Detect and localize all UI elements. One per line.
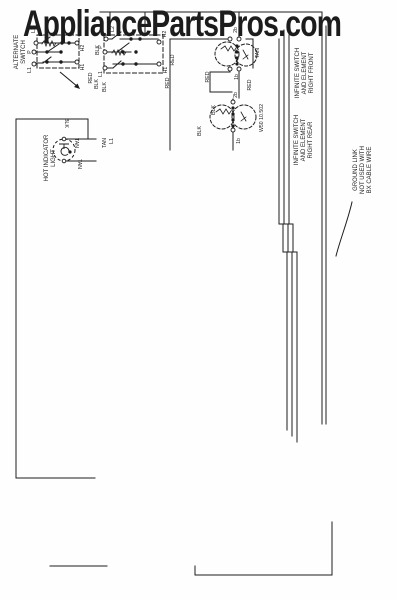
wire SW2 feeders from top border <box>110 12 145 35</box>
svg-text:L1: L1 <box>98 71 104 77</box>
svg-text:AND ELEMENT: AND ELEMENT <box>301 118 307 161</box>
element right rear switch circles <box>210 105 234 129</box>
svg-text:BLK: BLK <box>94 79 100 89</box>
wire right border pair <box>321 12 323 424</box>
svg-text:TAN: TAN <box>255 48 261 58</box>
svg-text:1b: 1b <box>234 74 240 80</box>
svg-text:BLK: BLK <box>102 82 108 92</box>
svg-text:HOT INDICATOR: HOT INDICATOR <box>44 134 50 181</box>
switch SW2 contacts <box>107 32 158 68</box>
svg-text:P: P <box>27 50 33 54</box>
svg-text:RED: RED <box>247 79 253 90</box>
wire left border <box>16 119 95 478</box>
lamp hot indicator light <box>53 139 75 161</box>
svg-text:RIGHT REAR: RIGHT REAR <box>308 121 314 159</box>
svg-text:GROUND LINK: GROUND LINK <box>353 149 359 191</box>
svg-text:BLK: BLK <box>95 45 101 55</box>
wire right rear connections <box>232 99 234 150</box>
svg-text:L1: L1 <box>109 138 115 144</box>
SW1 terminal circles <box>34 41 38 45</box>
svg-text:2b: 2b <box>233 92 239 98</box>
resistor in SW1 <box>42 41 56 46</box>
svg-text:NOT USED WITH: NOT USED WITH <box>360 146 366 194</box>
svg-text:INFINITE SWITCH: INFINITE SWITCH <box>295 48 301 98</box>
svg-text:L1: L1 <box>27 67 33 73</box>
svg-text:BLK: BLK <box>63 118 69 128</box>
svg-text:ALTERNATE: ALTERNATE <box>14 35 20 69</box>
svg-text:LIGHT: LIGHT <box>51 149 57 167</box>
svg-text:TAN: TAN <box>102 138 108 148</box>
right rear dots <box>231 106 234 109</box>
resistor in SW2 <box>112 50 126 55</box>
switch SW1 contacts <box>36 37 76 63</box>
element right front switch circles <box>215 42 239 66</box>
svg-text:L2: L2 <box>110 26 116 32</box>
svg-text:BLK: BLK <box>211 105 217 115</box>
svg-text:BX CABLE WIRE: BX CABLE WIRE <box>367 147 373 194</box>
svg-text:BLK: BLK <box>197 126 203 136</box>
SW2 terminal dots <box>129 37 132 40</box>
wire right front bottom loop <box>210 69 239 98</box>
SW1 terminal dots <box>60 41 63 44</box>
svg-text:H2: H2 <box>162 31 168 38</box>
svg-text:RIGHT FRONT: RIGHT FRONT <box>309 52 315 93</box>
wire right front top <box>170 13 253 150</box>
svg-text:H1: H1 <box>163 67 169 74</box>
wire right-side verticals <box>279 30 297 442</box>
right rear terminals <box>231 100 235 104</box>
right front terminals <box>228 37 232 41</box>
svg-text:RED: RED <box>170 54 176 65</box>
svg-text:1b: 1b <box>236 138 242 144</box>
switch SW1 alternate switch dashed box <box>37 35 79 68</box>
svg-text:L2: L2 <box>31 27 37 33</box>
svg-text:RED: RED <box>205 71 211 82</box>
arrow pointer <box>60 72 78 87</box>
wire hot light connections <box>66 119 96 161</box>
svg-text:W50 10.502: W50 10.502 <box>259 104 265 132</box>
switch SW2 infinite switch dashed box <box>104 35 163 73</box>
svg-text:TAN: TAN <box>73 138 79 148</box>
svg-text:INFINITE SWITCH: INFINITE SWITCH <box>294 115 300 165</box>
svg-text:H1: H1 <box>80 64 86 71</box>
right front dots <box>235 44 238 47</box>
wire ground link pointer <box>336 202 352 256</box>
wire bottom run <box>50 522 332 575</box>
SW2 terminal circles <box>104 37 108 41</box>
wire top border <box>100 11 322 13</box>
svg-text:2b: 2b <box>233 27 239 33</box>
svg-text:AppliancePartsPros.com: AppliancePartsPros.com <box>23 2 341 44</box>
svg-text:H2: H2 <box>80 45 86 52</box>
svg-text:AND ELEMENT: AND ELEMENT <box>302 51 308 94</box>
